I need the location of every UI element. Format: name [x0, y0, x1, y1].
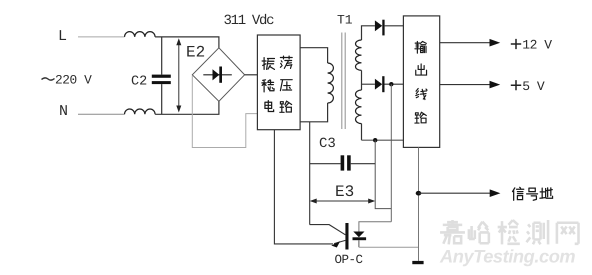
opto LED diode	[353, 232, 364, 238]
wire LED bottom	[359, 246, 419, 248]
wire L to bridge	[155, 36, 219, 38]
bridge top stub	[218, 37, 220, 48]
label lu2 (output box char 4)	[415, 112, 426, 123]
wire primary return branch down	[309, 122, 311, 225]
watermark 嘉峪检测网	[440, 220, 578, 244]
diode D1	[375, 20, 382, 31]
label wen (oscillator box char 3)	[262, 80, 274, 92]
svg-text:T1: T1	[337, 13, 353, 28]
svg-text:N: N	[59, 103, 68, 120]
label di (signal ground char 3)	[540, 188, 553, 198]
label +5 V	[511, 80, 521, 90]
opto transistor	[345, 223, 348, 250]
wire +5 dot down	[390, 84, 392, 222]
capacitor C2	[152, 75, 171, 78]
label xian (output box char 3)	[416, 89, 427, 100]
secondary bottom stem	[361, 124, 363, 141]
label lu (oscillator box char 6)	[280, 101, 292, 112]
+5V output arrow	[440, 84, 492, 86]
svg-text:C2: C2	[131, 74, 147, 89]
secondary bottom wire	[362, 139, 404, 141]
svg-text:AnyTesting.com: AnyTesting.com	[439, 247, 575, 267]
wire emitter to box1 bottom	[274, 130, 333, 244]
wire N lead	[78, 113, 125, 115]
wire N to bridge	[155, 113, 219, 115]
transformer T1 primary winding	[328, 63, 334, 103]
bridge rectifier diamond	[192, 48, 244, 102]
oscillator regulator box	[257, 35, 300, 130]
svg-text:220 V: 220 V	[55, 72, 92, 87]
secondary top wire	[362, 26, 375, 40]
signal ground arrow	[419, 192, 493, 194]
svg-text:OP-C: OP-C	[335, 253, 363, 267]
label dian (oscillator box char 5)	[265, 101, 274, 112]
diode D2	[375, 79, 382, 90]
label hao (signal ground char 2)	[527, 188, 538, 200]
transformer T1 core	[341, 33, 343, 130]
measure arrow E2	[178, 41, 180, 110]
wire secondary return down	[375, 140, 391, 208]
svg-text:311 Vdc: 311 Vdc	[224, 13, 275, 29]
+12V output arrow	[440, 42, 492, 44]
wire C2 bottom stub	[161, 84, 163, 114]
inductor L-line choke	[125, 32, 156, 37]
label zhen (oscillator box char 1)	[262, 58, 274, 70]
wire primary bottom	[300, 103, 328, 122]
measure arrow E3	[312, 200, 373, 202]
capacitor C3	[310, 163, 341, 165]
svg-text:E2: E2	[186, 44, 205, 62]
wire box1 to primary top	[300, 48, 328, 63]
svg-text:12 V: 12 V	[522, 38, 552, 53]
signal ground vertical	[418, 147, 420, 261]
svg-text:E3: E3	[335, 183, 354, 201]
label ~220 V	[42, 78, 55, 80]
svg-text:C3: C3	[319, 136, 336, 152]
label ya (oscillator box char 4)	[280, 80, 292, 91]
wire L lead	[78, 36, 125, 38]
output box	[403, 16, 439, 148]
bridge bottom stub	[218, 101, 220, 114]
svg-text:5 V: 5 V	[522, 79, 545, 94]
label +12 V	[511, 39, 521, 49]
secondary mid stem + tap	[361, 70, 363, 90]
wire C2 top stub	[161, 37, 163, 75]
label dang (oscillator box char 2)	[280, 56, 292, 68]
junction dot signal ground	[416, 191, 422, 196]
junction dot +5 rail	[389, 82, 393, 86]
secondary upper winding	[356, 40, 362, 70]
secondary lower winding	[356, 90, 362, 124]
bridge internal diode	[203, 74, 232, 76]
chassis ground	[412, 261, 423, 264]
wire bridge - return (gray)	[192, 76, 257, 148]
label shu (output box char 1)	[415, 42, 426, 54]
inductor N-line choke	[125, 109, 156, 114]
wire bridge + to box1	[245, 74, 258, 76]
junction dot secondary return	[373, 138, 377, 142]
wire zigzag to opto LED	[359, 222, 391, 232]
CJK: hand-drawn glyph approximations	[262, 42, 553, 201]
label xin (signal ground char 1)	[513, 187, 524, 200]
label chu (output box char 2)	[416, 64, 427, 75]
svg-text:L: L	[58, 28, 67, 45]
